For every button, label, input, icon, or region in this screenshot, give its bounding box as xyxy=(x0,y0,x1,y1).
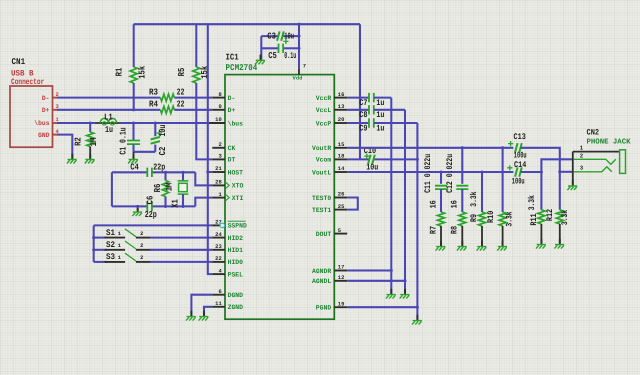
svg-text:22: 22 xyxy=(177,100,185,110)
wire crystal ground stem xyxy=(137,206,139,211)
capacitor C11 xyxy=(435,186,447,189)
svg-text:C13: C13 xyxy=(514,132,526,142)
ground CN1 xyxy=(71,154,73,160)
wire C12 top lead xyxy=(461,148,463,184)
wire CN1 GND pin xyxy=(57,135,72,159)
wire VoutL to jack tip xyxy=(521,159,573,172)
wire R9 top lead xyxy=(481,172,483,212)
svg-text:VoutL: VoutL xyxy=(312,169,331,176)
junction at (137.7,206.4) xyxy=(136,205,139,208)
wire crystal bottom row xyxy=(112,205,195,207)
svg-text:\bus: \bus xyxy=(228,120,243,127)
wire C8 right corner down xyxy=(374,109,405,111)
IC1 pin 7 Vdd stub xyxy=(298,68,300,74)
svg-text:R11: R11 xyxy=(529,213,539,225)
svg-text:15k: 15k xyxy=(138,65,148,78)
svg-text:CK: CK xyxy=(228,145,236,152)
wire VoutL row xyxy=(347,171,513,173)
svg-text:D+: D+ xyxy=(228,107,236,114)
junction at (183,172.3) xyxy=(181,171,184,174)
IC1 pin 19 PGND stub xyxy=(334,306,347,308)
IC1 pin 8 D- stub xyxy=(212,97,225,99)
svg-text:R4: R4 xyxy=(149,100,158,110)
svg-text:C12 0.022u: C12 0.022u xyxy=(445,154,455,193)
svg-text:VccR: VccR xyxy=(316,95,331,102)
svg-text:6: 6 xyxy=(219,289,222,295)
wire R11 top lead xyxy=(540,172,542,210)
svg-text:12: 12 xyxy=(338,275,345,281)
junction at (183,206.4) xyxy=(181,205,184,208)
IC1 pin 1 XTI stub xyxy=(212,197,225,199)
IC1 pin 14 VoutL stub xyxy=(334,171,347,173)
IC1 pin 6 DGND stub xyxy=(212,294,225,296)
junction at (417.4,307.2) xyxy=(416,306,419,309)
ground R10 xyxy=(502,241,504,247)
wire R5 bottom lead to DT pin xyxy=(196,83,212,159)
svg-text:S2: S2 xyxy=(106,240,115,250)
wire AGNDR xyxy=(347,269,391,271)
svg-text:VccP: VccP xyxy=(316,120,331,127)
ground C8 AGNDL xyxy=(404,289,406,295)
svg-text:DT: DT xyxy=(228,157,236,164)
wire VoutR to jack ring xyxy=(521,148,560,210)
svg-text:HID0: HID0 xyxy=(228,259,243,266)
svg-text:PGND: PGND xyxy=(316,305,331,312)
ground C3 C5 xyxy=(260,55,262,61)
svg-text:9: 9 xyxy=(219,104,222,110)
wire C11 to R7 xyxy=(440,189,442,212)
wire C8 vertical to ground xyxy=(404,110,406,294)
svg-text:VccL: VccL xyxy=(316,107,331,114)
wire TEST0 to TEST1 bracket xyxy=(347,198,358,210)
wire D- from R3 to IC pin 8 xyxy=(174,97,212,99)
wire PGND xyxy=(347,306,417,308)
svg-text:1u: 1u xyxy=(376,123,384,133)
capacitor C9 xyxy=(369,118,374,127)
resistor R6 xyxy=(162,181,168,197)
svg-text:R8: R8 xyxy=(449,226,459,234)
ground CN2 xyxy=(572,180,574,186)
IC1 pin 5 DOUT stub xyxy=(334,233,347,235)
svg-text:22p: 22p xyxy=(153,163,165,173)
IC1 pin 11 ZGND stub xyxy=(212,306,225,308)
junction at (93.7,249.8) xyxy=(92,248,95,251)
svg-text:10: 10 xyxy=(215,117,222,123)
wire Vdd feed to pin 7 xyxy=(298,24,300,68)
junction at (441,172.0) xyxy=(439,170,442,173)
svg-text:2: 2 xyxy=(580,153,584,160)
capacitor C13 xyxy=(515,143,522,152)
capacitor C5 xyxy=(279,44,284,53)
svg-text:2: 2 xyxy=(140,231,143,237)
junction at (133.7,109.8) xyxy=(132,108,135,111)
capacitor C7 xyxy=(369,93,374,102)
pin label SSPND xyxy=(228,221,247,230)
svg-text:15: 15 xyxy=(338,142,345,148)
junction at (196.3,123) xyxy=(195,121,198,124)
svg-text:14: 14 xyxy=(338,166,345,172)
capacitor C12 xyxy=(456,186,468,189)
CN1 pin 3 red stub xyxy=(52,109,57,111)
svg-text:21: 21 xyxy=(215,166,222,172)
svg-text:S3: S3 xyxy=(106,252,115,262)
polarity + C13 xyxy=(508,141,513,146)
junction at (559.8,171.8) xyxy=(558,170,561,173)
svg-text:25: 25 xyxy=(338,204,345,210)
svg-text:C3: C3 xyxy=(267,32,276,42)
ground DGND xyxy=(190,311,192,317)
ground R12 xyxy=(559,239,561,245)
wire VBUS from CN1 to L1 xyxy=(57,122,96,124)
IC1 pin 16 VccR stub xyxy=(334,97,347,99)
op-amp IC1 PCM2704 body xyxy=(225,75,334,320)
capacitor C1 xyxy=(127,141,140,145)
svg-text:C8: C8 xyxy=(359,110,367,120)
wire crystal left vertical xyxy=(111,172,113,206)
ground R7 xyxy=(440,241,442,247)
ground C1 C2 xyxy=(133,154,135,160)
capacitor C14 xyxy=(515,167,522,176)
capacitor C2 xyxy=(151,137,160,144)
ground R9 xyxy=(481,241,483,247)
wire C11 top lead xyxy=(440,172,442,184)
wire C2 bottom lead xyxy=(154,145,156,152)
wire C8 left xyxy=(347,109,369,111)
wire VBUS from L1 to IC pin 10 xyxy=(119,122,209,124)
svg-text:3.3k: 3.3k xyxy=(469,192,479,207)
wire S3 right xyxy=(150,261,212,263)
wire AGNDL xyxy=(347,280,405,282)
IC1 pin 18 Vcom stub xyxy=(334,158,347,160)
wire XTO corner xyxy=(195,172,212,185)
svg-text:3: 3 xyxy=(219,154,222,160)
IC1 pin 23 HID1 stub xyxy=(212,249,225,251)
wire R6 top lead xyxy=(164,172,166,180)
svg-text:5: 5 xyxy=(338,228,341,234)
svg-text:TEST1: TEST1 xyxy=(312,207,331,214)
capacitor C8 xyxy=(369,105,374,114)
wire R6 bottom lead xyxy=(164,197,166,207)
wire S3 left xyxy=(94,261,107,263)
resistor R4 xyxy=(160,106,174,113)
svg-text:2: 2 xyxy=(219,142,222,148)
wire VBUS top rail xyxy=(134,23,360,25)
polarity + C14 xyxy=(507,165,512,170)
svg-text:3: 3 xyxy=(580,165,584,172)
wire ZGND xyxy=(204,307,212,316)
IC1 pin 15 VoutR stub xyxy=(334,147,347,149)
wire HOST tap xyxy=(208,171,213,173)
wire XTI corner xyxy=(195,198,212,207)
wire C12 to R8 xyxy=(461,189,463,212)
wire Vcom row xyxy=(347,158,417,160)
wire S2 right xyxy=(150,249,212,251)
svg-text:2: 2 xyxy=(140,255,143,261)
wire C7 right corner down xyxy=(374,97,391,99)
IC1 pin 27 SSPND inversion bubble xyxy=(220,223,225,228)
svg-text:19: 19 xyxy=(338,301,345,307)
svg-text:1: 1 xyxy=(580,145,584,152)
wire R10 top lead xyxy=(502,148,504,212)
svg-text:3.3k: 3.3k xyxy=(505,211,515,226)
switch S1 xyxy=(105,229,151,238)
IC1 pin 9 D+ stub xyxy=(212,109,225,111)
svg-text:C9: C9 xyxy=(359,123,367,133)
svg-text:PCM2704: PCM2704 xyxy=(226,63,258,73)
value USB B Connector xyxy=(11,70,44,87)
svg-text:D-: D- xyxy=(42,95,50,102)
svg-text:D-: D- xyxy=(228,95,236,102)
junction at (541.4,172.0) xyxy=(540,170,543,173)
svg-text:1: 1 xyxy=(219,192,222,198)
svg-text:R10: R10 xyxy=(486,211,496,223)
svg-text:28: 28 xyxy=(215,180,222,186)
svg-text:7: 7 xyxy=(303,63,306,69)
IC1 pin 28 XTO stub xyxy=(212,184,225,186)
crystal X1 xyxy=(178,172,189,206)
IC1 pin 3 DT stub xyxy=(212,158,225,160)
IC1 pin 28 XTO clock chevron xyxy=(226,182,230,188)
ground R8 xyxy=(461,241,463,247)
svg-text:18: 18 xyxy=(338,154,345,160)
junction at (165.5,206.4) xyxy=(164,205,167,208)
wire crystal top row xyxy=(112,171,195,173)
svg-text:D+: D+ xyxy=(42,107,50,114)
svg-text:11: 11 xyxy=(215,301,222,307)
svg-text:R2: R2 xyxy=(74,137,84,146)
junction at (133.5,123) xyxy=(132,121,135,124)
wire R12 ground stem xyxy=(559,224,561,244)
svg-text:HID1: HID1 xyxy=(228,247,243,254)
wire R1 bottom lead to D+ xyxy=(133,83,135,110)
wire D+ from R4 to IC pin 9 xyxy=(174,109,212,111)
resistor R10 xyxy=(499,212,506,226)
switch S3 xyxy=(105,253,151,262)
svg-text:PHONE JACK: PHONE JACK xyxy=(587,138,632,146)
svg-text:1: 1 xyxy=(118,255,121,261)
junction at (502.6,147.8) xyxy=(501,146,504,149)
connector CN2 phone jack xyxy=(573,150,626,185)
resistor R12 xyxy=(556,210,563,224)
wire R9 ground stem xyxy=(481,226,483,246)
junction at (405,280.8) xyxy=(403,279,406,282)
resistor R3 xyxy=(160,94,174,101)
wire VBUS vertical to HOST and PSEL xyxy=(208,24,213,274)
svg-text:AGNDR: AGNDR xyxy=(312,268,331,275)
junction at (417.4,159.4) xyxy=(416,158,419,161)
svg-text:3.3k: 3.3k xyxy=(560,210,570,225)
svg-text:CN2: CN2 xyxy=(587,128,600,137)
svg-text:PSEL: PSEL xyxy=(228,271,243,278)
svg-text:10u: 10u xyxy=(284,32,294,42)
IC1 pin 4 PSEL stub xyxy=(212,273,225,275)
junction at (462.3,147.8) xyxy=(461,146,464,149)
svg-text:L1: L1 xyxy=(104,113,113,123)
wire S2 left xyxy=(94,249,107,251)
IC1 pin 13 VccL stub xyxy=(334,109,347,111)
wire R1 top lead xyxy=(133,24,135,67)
resistor R9 xyxy=(479,212,486,226)
svg-text:IC1: IC1 xyxy=(226,53,239,63)
svg-text:AGNDL: AGNDL xyxy=(312,278,331,285)
resistor R1 xyxy=(130,67,137,83)
IC1 pin 26 TEST0 stub xyxy=(334,197,347,199)
IC1 pin 2 CK stub xyxy=(212,147,225,149)
IC1 pin 22 HID0 stub xyxy=(212,261,225,263)
svg-text:Vdd: Vdd xyxy=(293,75,303,81)
wire R11 ground stem xyxy=(540,224,542,244)
wire C3 C5 ground-side vertical xyxy=(260,36,262,59)
svg-text:22: 22 xyxy=(177,87,185,97)
svg-text:C14: C14 xyxy=(514,160,526,170)
capacitor C10 xyxy=(368,155,375,164)
resistor R5 xyxy=(193,67,200,83)
svg-text:13: 13 xyxy=(338,104,345,110)
ground C7 AGNDR xyxy=(390,289,392,295)
svg-text:2: 2 xyxy=(140,243,143,249)
capacitor C4 xyxy=(147,168,152,177)
svg-text:TEST0: TEST0 xyxy=(312,195,331,202)
wire C7 left xyxy=(347,97,369,99)
wire R2 bottom lead xyxy=(89,147,91,159)
connector CN1 box xyxy=(10,86,53,147)
svg-text:C11 0.022u: C11 0.022u xyxy=(423,154,433,193)
wire C2 top lead xyxy=(154,123,156,136)
wire C5 row xyxy=(261,47,299,49)
svg-text:1: 1 xyxy=(118,231,121,237)
wire R5 top lead xyxy=(195,24,197,67)
junction at (207.8,123) xyxy=(206,121,209,124)
polarity + C10 xyxy=(364,154,369,159)
svg-text:HOST: HOST xyxy=(228,169,243,176)
wire C9 vertical to ground xyxy=(416,123,418,320)
svg-text:Connector: Connector xyxy=(11,78,44,87)
wire C1 bottom lead and junction to C2 xyxy=(134,144,156,151)
wire C9 right corner down xyxy=(374,122,417,124)
wire VoutR row xyxy=(347,147,513,149)
CN1 pin 1 red stub xyxy=(52,122,57,124)
svg-text:VoutR: VoutR xyxy=(312,145,331,152)
junction at (299,36.1) xyxy=(297,35,300,38)
wire Vdd right vertical xyxy=(359,24,361,159)
svg-text:1M: 1M xyxy=(89,138,99,147)
junction at (207.8,172.0) xyxy=(206,170,209,173)
ground C9 PGND xyxy=(416,315,418,321)
svg-text:17: 17 xyxy=(338,265,345,271)
CN1 pin 4 red stub xyxy=(52,134,57,136)
wire C9 left xyxy=(347,122,369,124)
junction at (299,48.3) xyxy=(297,47,300,50)
svg-text:1M: 1M xyxy=(165,183,175,192)
IC1 pin 17 AGNDR stub xyxy=(334,270,347,272)
IC1 pin 20 VccP stub xyxy=(334,122,347,124)
wire R2 top lead xyxy=(89,123,91,132)
wire SSPND row xyxy=(94,224,213,226)
ground ZGND xyxy=(203,311,205,317)
svg-text:1: 1 xyxy=(118,243,121,249)
svg-text:3.3k: 3.3k xyxy=(527,195,537,210)
IC1 pin 27 SSPND stub xyxy=(212,224,220,226)
svg-text:24: 24 xyxy=(215,232,222,238)
junction at (93.7,237.6) xyxy=(92,236,95,239)
svg-text:C5: C5 xyxy=(268,51,277,61)
svg-text:R9: R9 xyxy=(469,214,479,222)
inductor L1 xyxy=(96,118,120,125)
svg-text:1u: 1u xyxy=(105,125,113,135)
svg-text:HID2: HID2 xyxy=(228,235,243,242)
svg-text:R3: R3 xyxy=(149,87,158,97)
svg-text:16: 16 xyxy=(338,92,345,98)
svg-text:C6: C6 xyxy=(146,196,156,205)
resistor R11 xyxy=(538,210,545,224)
wire R10 ground stem xyxy=(502,226,504,246)
wire C1 top lead xyxy=(132,123,134,140)
junction at (299,24.2) xyxy=(297,23,300,26)
junction at (90.2,123) xyxy=(89,121,92,124)
wire C1 ground stem xyxy=(133,152,135,159)
polarity + C2 xyxy=(157,131,162,136)
junction at (165.5,172.3) xyxy=(164,171,167,174)
svg-text:XTI: XTI xyxy=(232,195,244,202)
wire S1 left xyxy=(94,237,107,239)
junction at (155.3,123) xyxy=(154,121,157,124)
svg-text:23: 23 xyxy=(215,244,222,250)
svg-text:C2: C2 xyxy=(158,147,168,156)
svg-text:C1 0.1u: C1 0.1u xyxy=(119,127,129,154)
svg-text:S1: S1 xyxy=(106,228,115,238)
wire C3 row xyxy=(261,35,299,37)
svg-text:0.1u: 0.1u xyxy=(284,51,296,61)
IC1 pin 25 TEST1 stub xyxy=(334,209,347,211)
polarity + C3 xyxy=(283,39,288,44)
svg-text:26: 26 xyxy=(338,192,345,198)
junction at (391.3,270.5) xyxy=(390,269,393,272)
svg-text:22p: 22p xyxy=(145,210,157,220)
wire R7 ground stem xyxy=(440,226,442,246)
IC1 pin 12 AGNDL stub xyxy=(334,280,347,282)
svg-text:16: 16 xyxy=(428,200,438,208)
CN1 pin 2 red stub xyxy=(52,97,57,99)
switch S2 xyxy=(105,241,151,250)
wire switch common vertical xyxy=(93,225,95,262)
resistor R2 xyxy=(87,132,94,147)
svg-text:DOUT: DOUT xyxy=(316,231,331,238)
svg-text:1u: 1u xyxy=(376,110,384,120)
capacitor C6 xyxy=(147,202,152,211)
IC1 pin 21 HOST stub xyxy=(212,171,225,173)
svg-text:R7: R7 xyxy=(428,226,438,234)
svg-text:16: 16 xyxy=(449,200,459,208)
ground crystal xyxy=(137,206,139,212)
svg-text:100u: 100u xyxy=(512,177,525,187)
ground R2 xyxy=(89,154,91,160)
capacitor C3 xyxy=(277,31,284,40)
svg-text:R5: R5 xyxy=(177,68,187,77)
ground R11 xyxy=(540,239,542,245)
resistor R8 xyxy=(459,212,466,226)
wire D- from CN1 to R3 xyxy=(57,97,160,99)
svg-text:10u: 10u xyxy=(158,125,168,137)
svg-text:SSPND: SSPND xyxy=(228,223,247,230)
svg-text:XTO: XTO xyxy=(232,183,244,190)
wire D+ from CN1 to R4 xyxy=(57,109,160,111)
svg-text:20: 20 xyxy=(338,117,345,123)
IC1 pin 1 XTI clock chevron xyxy=(226,194,230,200)
svg-text:GND: GND xyxy=(38,132,49,139)
svg-text:8: 8 xyxy=(219,92,222,98)
wire C7 vertical to ground xyxy=(390,98,392,294)
svg-text:C7: C7 xyxy=(359,98,367,108)
